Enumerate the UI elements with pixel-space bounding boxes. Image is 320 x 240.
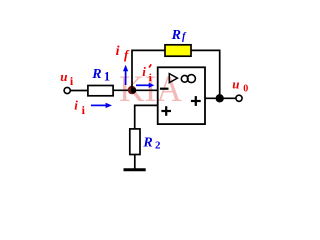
label R2 [142, 136, 161, 152]
svg-text:R: R [171, 28, 181, 43]
op-amp infinity symbol [181, 75, 195, 83]
resistor R2 [130, 129, 140, 155]
resistor R1 [88, 86, 113, 96]
op-amp non-inverting input plus sign [161, 106, 171, 116]
wire op-amp output to terminal [205, 97, 236, 99]
node A (summing node) [128, 86, 136, 94]
wire R1 to summing node and op-amp inverting input [113, 89, 158, 91]
label Rf [171, 28, 187, 43]
svg-text:R: R [142, 136, 152, 151]
wire input to R1 [70, 90, 88, 92]
op-amp gain triangle symbol [169, 74, 177, 83]
label i'_i [142, 64, 151, 84]
wire non-inverting input to R2 [135, 105, 158, 129]
svg-text:2: 2 [155, 139, 161, 151]
svg-text:i: i [116, 44, 120, 59]
wire Rf right and down to output node [191, 50, 220, 98]
label R1 [91, 67, 110, 84]
resistor Rf [165, 45, 191, 56]
output terminal (uo) [236, 95, 242, 101]
op-amp inverting input minus sign [160, 88, 169, 90]
label u_i [60, 69, 74, 88]
wire R2 to ground [134, 155, 136, 170]
input terminal (ui) [64, 87, 70, 93]
svg-text:0: 0 [243, 83, 248, 94]
svg-text:i: i [149, 72, 152, 84]
current arrow i'_i [136, 83, 154, 88]
label u_o [232, 76, 248, 94]
svg-text:i: i [74, 98, 78, 113]
current arrow i_f [123, 65, 128, 85]
svg-text:R: R [91, 67, 101, 82]
svg-text:i: i [142, 64, 146, 79]
output node [216, 94, 224, 102]
label i_f [116, 44, 130, 62]
wire node up to feedback branch [132, 50, 165, 90]
op-amp output plus sign [191, 96, 201, 106]
op-amp U1 body [158, 67, 205, 124]
svg-text:u: u [232, 76, 239, 91]
label i_i [74, 98, 85, 117]
svg-text:1: 1 [104, 70, 110, 84]
svg-text:u: u [60, 69, 67, 84]
ground [124, 168, 146, 171]
current arrow i_i [91, 103, 112, 108]
